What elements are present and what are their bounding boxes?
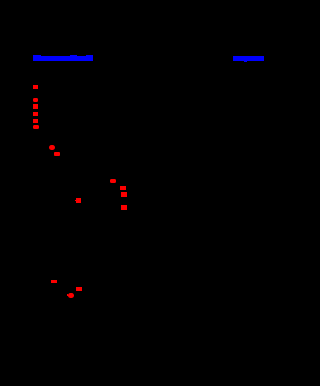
red ref 16 (round): x68-74 y293-298	[68, 293, 74, 298]
red ref 10: x120-126 y185.5-189.5	[120, 186, 126, 190]
hyperlink L1: left blue underlined link (author email), x33-93 y55.5-61	[33, 56, 93, 61]
hyperlink L2: right blue underlined link, x233-264 y55.7-62	[233, 56, 264, 60]
red ref 14: x51-57 y279.5-283.5	[51, 280, 57, 284]
red ref 15: x76-82 y287-291	[76, 287, 82, 291]
red ref 8: x54-60 y152-156	[54, 152, 60, 156]
red ref 11: x121-127 y192-197	[121, 192, 127, 197]
red ref 6: x33-38.5 y125-129.5	[33, 125, 39, 130]
red ref 13: x121-127 y205-210	[121, 205, 127, 210]
red ref 2: x33-37.5 y97-102	[33, 98, 38, 103]
red ref 3: x33-38 y104-108.5	[33, 104, 38, 108]
red ref 1: x33-38 y85-88.5	[33, 85, 38, 89]
red ref 5: x33-38 y119-123	[33, 119, 38, 123]
red ref 12: x75-81 y198.5-203	[76, 198, 82, 203]
red ref 9: x110-116.5 y179-183	[110, 179, 116, 183]
red ref 7 (round): x49-55 y144.5-150	[49, 145, 55, 150]
red ref 4: x33-38 y111.5-116	[33, 112, 38, 116]
